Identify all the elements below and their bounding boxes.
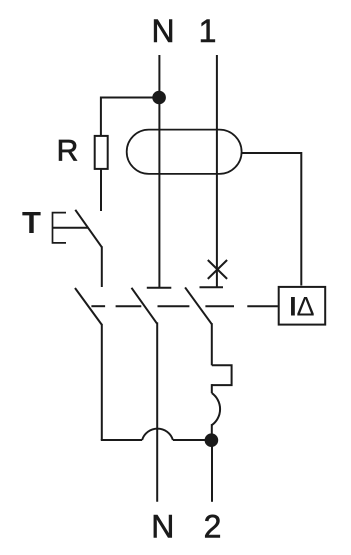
svg-text:IΔ: IΔ: [289, 292, 314, 322]
wire: test branch vertical down to resistor: [100, 97, 102, 136]
wire: bottom return horizontal from pole A: [101, 439, 142, 441]
mechanical linkage dashed line segment 3: [158, 305, 190, 307]
svg-text:N: N: [151, 509, 174, 545]
wire: hump to junction dot: [173, 439, 212, 441]
mechanical linkage dashed line segment 2: [116, 305, 142, 307]
wire: toroid output to detector box: [242, 153, 302, 286]
fixed contact bar pole 1: [200, 286, 224, 288]
resistor R: [95, 136, 108, 169]
wire crossover hump over line N: [142, 429, 173, 440]
fixed contact bar pole N: [147, 287, 172, 289]
svg-text:R: R: [57, 135, 79, 168]
wire: coil to junction dot: [211, 424, 213, 440]
breaker opening cross (X) on line 1: [208, 260, 227, 279]
switch contact blade pole N: [132, 288, 157, 324]
svg-text:1: 1: [199, 13, 217, 49]
wire: line 2 vertical to bottom terminal 2: [211, 440, 213, 502]
mechanical linkage dashed line segment 4: [205, 305, 234, 307]
wire: line N vertical (top terminal N down to contact): [158, 55, 160, 288]
wire: line 1 vertical (top terminal 1 down to contact): [216, 55, 218, 287]
trip coil winding (arc): [212, 393, 220, 425]
test button actuator bracket: [53, 213, 67, 243]
wire: test button to pole A contact: [101, 246, 103, 287]
svg-text:T: T: [22, 205, 41, 240]
mechanical linkage dashed line segment 1: [91, 305, 105, 307]
switch contact blade pole 1: [185, 287, 212, 324]
wire: pole 1 down to trip coil: [211, 323, 213, 365]
switch contact blade pole A (test circuit): [75, 288, 102, 325]
node: junction dot on line N: [152, 91, 166, 105]
svg-text:2: 2: [204, 509, 222, 545]
wire: test branch horizontal from junction: [101, 97, 159, 99]
wire: coil segment: [211, 384, 213, 393]
wire: pole N down to bottom terminal N: [156, 322, 158, 501]
test button plunger link: [53, 227, 89, 229]
wire: resistor to test button contact: [100, 169, 102, 211]
wire: pole A down to bottom return: [101, 324, 103, 440]
svg-text:N: N: [151, 13, 174, 49]
node: junction dot on line 2: [205, 433, 219, 447]
mechanical linkage dashed line segment 5: [247, 305, 278, 307]
residual current detector box U1: [279, 287, 326, 325]
trip coil armature (rectangular bump): [212, 365, 232, 385]
switch contact blade (test button): [75, 210, 102, 248]
current transformer toroid: [127, 130, 242, 174]
